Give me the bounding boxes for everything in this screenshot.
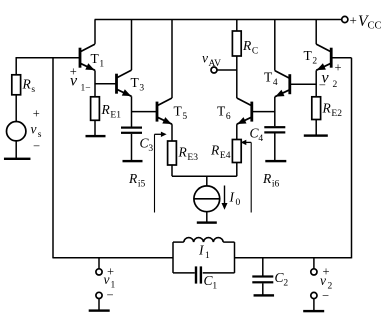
svg-text:1: 1 [212,282,217,292]
arrow I0 [224,186,226,205]
svg-text:AV: AV [209,59,222,69]
wire tail horizontal [172,175,237,177]
ground RE1 [86,135,106,137]
ground C3 [123,160,143,162]
svg-text:v: v [202,51,208,66]
terminal +VCC [342,16,348,22]
transistor T6 [250,102,253,122]
svg-text:CC: CC [368,21,382,32]
capacitor C4 [264,126,285,128]
svg-text:R: R [22,77,32,92]
wire I0 top [206,176,208,186]
wire T4 base [290,83,316,85]
wire Rs top [15,58,17,75]
wire left vertical [52,58,54,259]
terminal v2- [311,292,317,298]
wire T3 emitter to T5 base [132,111,158,113]
wire bottom left [53,257,173,259]
annotation Ri5 arrow [155,133,163,135]
svg-text:+: + [350,13,357,28]
svg-text:i6: i6 [272,180,280,190]
wire T6 base [252,111,275,113]
wire T3 collector [131,20,133,71]
wire C4 to ground [274,134,276,161]
ground C2 [254,294,274,296]
svg-text:−: − [322,288,329,302]
ground vs [4,158,31,160]
svg-text:E1: E1 [110,110,121,120]
wire bottom right [235,257,352,259]
wire T5 emitter [171,124,173,141]
wire T3 emitter [131,96,133,126]
svg-text:R: R [322,101,332,116]
svg-text:6: 6 [226,112,231,122]
resistor RC [232,31,241,56]
svg-text:3: 3 [148,144,153,154]
wire RE4 bottom [236,163,238,177]
ground v2 [303,310,324,312]
wire T1 emitter [94,70,96,84]
source vs [7,122,26,141]
wire I0 bottom [206,212,208,222]
resistor RE1 [91,97,100,121]
resistor RE3 [168,141,177,165]
wire T2 emitter [315,70,317,96]
terminal vAV [211,67,217,73]
svg-text:+: + [335,60,342,74]
wire v2 stub [313,258,315,269]
svg-text:T: T [264,69,273,84]
annotation Ri5 line [154,134,156,212]
wire RE3 bottom [171,165,173,176]
svg-text:1−: 1− [81,84,91,94]
terminal v2+ [311,269,317,275]
wire T1 collector [94,20,96,44]
wire RE1 to ground [94,120,96,135]
wire v2 ground stub [313,299,315,311]
inductor I1 [184,238,223,242]
transistor T4 [288,74,291,94]
svg-text:T: T [304,48,313,63]
svg-text:i5: i5 [138,180,146,190]
wire C2 top [262,258,264,277]
svg-text:T: T [174,104,183,119]
svg-text:R: R [178,145,188,160]
svg-text:s: s [31,85,35,95]
ground RE2 [304,134,328,136]
transistor T5 [156,102,159,122]
wire vs to ground [15,141,17,158]
wire vAV [217,69,237,71]
svg-text:E4: E4 [220,151,231,161]
svg-text:4: 4 [273,78,278,88]
current source I0 [194,186,220,212]
capacitor C1 [195,266,197,283]
wire T4 emitter [274,97,276,126]
ground C4 [265,160,286,162]
wire VCC rail [95,19,342,21]
capacitor C3 [121,127,142,129]
svg-text:E2: E2 [331,109,342,119]
transistor T2 [330,48,333,68]
wire T6 emitter [236,124,238,139]
svg-text:1: 1 [99,60,104,70]
resistor RE4 [232,140,241,163]
svg-text:3: 3 [139,84,144,94]
terminal v1- [96,292,102,298]
svg-text:v: v [320,273,326,288]
wire RC bottom [236,56,238,98]
wire tank box [173,241,184,243]
wire input node [16,57,81,59]
wire right vertical [351,58,353,259]
wire T5 collector [171,20,173,99]
ground I0 [197,221,217,223]
svg-text:v: v [31,122,37,137]
svg-text:2: 2 [312,57,317,67]
transistor T1 [79,48,82,68]
svg-text:C: C [252,47,258,57]
svg-text:4: 4 [258,134,263,144]
annotation Ri6 arrow [243,141,251,143]
svg-text:v: v [104,272,110,287]
terminal v1+ [96,269,102,275]
wire Rs to vs [15,95,17,122]
svg-text:0: 0 [236,198,241,208]
svg-text:R: R [101,102,111,117]
annotation Ri6 line [250,142,252,212]
resistor RE2 [312,97,321,120]
svg-text:−: − [107,288,114,302]
wire RE2 to ground [315,120,317,135]
svg-text:T: T [91,51,100,66]
wire C2 to ground [262,283,264,295]
svg-text:E3: E3 [187,153,198,163]
wire T2 base [331,57,351,59]
svg-text:v: v [70,73,78,90]
transistor T3 [115,74,118,94]
svg-text:2: 2 [333,80,338,90]
wire RC top [236,20,238,32]
svg-text:T: T [131,75,140,90]
wire T2 collector [315,20,317,45]
capacitor C2 [252,275,273,277]
svg-text:+: + [33,106,40,120]
svg-text:R: R [210,143,220,158]
svg-text:R: R [262,171,272,186]
ground v1 [89,309,110,311]
svg-text:R: R [242,38,252,53]
wire v1 ground stub [98,299,100,310]
wire C3 to ground [131,134,133,161]
svg-text:1: 1 [205,251,210,261]
resistor Rs [12,75,21,95]
svg-text:T: T [217,104,226,119]
wire RE1 top [94,84,96,97]
wire T1 emitter to T3 base [95,83,117,85]
wire v1 stub [98,258,100,269]
svg-text:5: 5 [182,112,187,122]
svg-text:R: R [128,171,138,186]
svg-text:−: − [33,139,40,153]
svg-text:2: 2 [283,279,288,289]
wire T4 collector [274,20,276,71]
svg-text:−: − [319,78,326,92]
